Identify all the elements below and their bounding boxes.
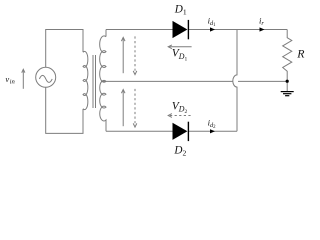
svg-text:id2: id2 [208, 117, 217, 130]
arrow VD2 reference dashed [168, 114, 191, 118]
node dot output [286, 80, 289, 83]
svg-text:VD2: VD2 [172, 101, 188, 116]
wire primary bottom [46, 87, 83, 133]
svg-text:R: R [296, 47, 305, 61]
arrow secondary bottom loop dashed down [133, 89, 137, 127]
wire node to ground [286, 81, 288, 91]
arrow secondary top loop dashed down [133, 36, 137, 74]
current arrowhead id2 [210, 129, 215, 133]
arrow secondary top loop solid up [121, 37, 125, 73]
wire D2 cathode to corner [188, 130, 237, 132]
arrow secondary bottom loop solid up [121, 90, 125, 127]
svg-text:id1: id1 [208, 15, 217, 28]
wire center tap left of hop [101, 80, 233, 82]
wire secondary top [106, 29, 173, 31]
wire center tap right of hop [238, 80, 287, 82]
arrow VD1 reference [168, 45, 191, 49]
svg-text:vin: vin [5, 74, 15, 86]
inductor secondary bottom half [100, 80, 106, 131]
diode D2 [173, 122, 190, 141]
current arrowhead ir [260, 27, 265, 31]
voltage source sine [39, 75, 52, 82]
resistor R [283, 30, 292, 82]
wire output node vertical with hop [233, 30, 237, 132]
svg-text:VD1: VD1 [172, 48, 188, 63]
svg-text:D1: D1 [174, 3, 187, 16]
voltage source Vin circle [36, 67, 56, 87]
current arrowhead id1 [210, 27, 215, 31]
diode D1 [173, 20, 190, 39]
wire primary top [46, 30, 83, 53]
wire D1 cathode to resistor [188, 29, 287, 31]
wire secondary bottom [106, 130, 173, 132]
svg-text:ir: ir [259, 15, 264, 27]
inductor primary winding [83, 51, 88, 109]
inductor secondary top half [100, 30, 106, 83]
svg-text:D2: D2 [173, 144, 186, 157]
wire source to top [45, 29, 47, 67]
arrow vin reference [22, 69, 25, 89]
ground [281, 92, 294, 96]
transformer core [92, 55, 94, 108]
